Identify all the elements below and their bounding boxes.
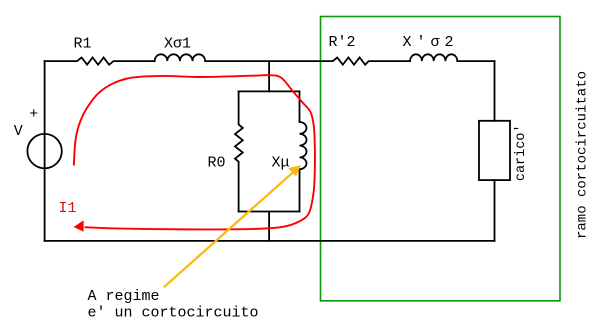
svg-text:A regime: A regime [88,288,160,305]
svg-text:V: V [14,123,23,140]
svg-text:+: + [29,106,38,123]
svg-text:R'2: R'2 [329,34,356,51]
svg-text:e' un cortocircuito: e' un cortocircuito [88,304,259,321]
svg-text:Xσ1: Xσ1 [164,35,191,52]
svg-text:R1: R1 [74,35,92,52]
svg-text:carico': carico' [514,124,529,181]
svg-text:I1: I1 [59,200,77,217]
svg-text:X'σ2: X'σ2 [403,34,459,51]
svg-text:ramo cortocircuitato: ramo cortocircuitato [575,71,591,239]
svg-text:Xμ: Xμ [272,154,290,171]
svg-text:R0: R0 [208,154,226,171]
